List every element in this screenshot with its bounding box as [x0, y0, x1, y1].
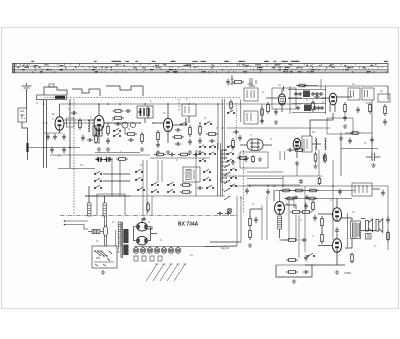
resistor R56 — [318, 177, 321, 185]
IF cluster right wire — [325, 86, 327, 114]
dial cord bus step 2 — [72, 89, 100, 93]
band switch SC0 — [94, 185, 101, 188]
wire down x158 — [157, 160, 159, 182]
rect to socket wire — [146, 226, 153, 229]
switch bank wire 2 — [103, 180, 130, 182]
bus switch SB3 — [227, 110, 234, 113]
ground V6 — [313, 164, 317, 168]
V4 grid — [266, 97, 279, 99]
resistor R39 — [351, 253, 354, 264]
capacitor C65 — [125, 109, 131, 113]
ground R12 — [198, 150, 202, 154]
capacitor C46 — [193, 153, 199, 157]
psu to sockets a — [205, 245, 237, 248]
ground selector — [101, 270, 105, 274]
pilot lamp — [227, 208, 232, 213]
ground det box — [258, 157, 262, 161]
capacitor C14 — [175, 142, 181, 146]
capacitor C44 on chassis line — [225, 212, 231, 216]
wire y168.5 — [58, 168, 95, 170]
psu to sockets b — [210, 241, 241, 243]
resistor R38 — [321, 232, 324, 244]
loudspeaker driver plug — [366, 219, 373, 232]
resistor R43 — [252, 155, 255, 163]
capacitor C3b — [50, 147, 54, 153]
wire bar down — [27, 152, 29, 160]
V9 cathode — [336, 252, 338, 265]
grid chain — [321, 228, 323, 233]
wire T1 down — [144, 118, 146, 123]
resistor R35 — [286, 271, 298, 274]
HT bus line B — [240, 100, 242, 123]
resistor R16 — [314, 152, 317, 164]
trimmer CT2 — [130, 122, 135, 127]
chassis dashed boundary — [44, 98, 240, 216]
switch shaft dashed 2 — [236, 103, 238, 140]
V3 anode wire — [167, 104, 169, 118]
wire box to bar — [22, 122, 28, 143]
V2 anode wire — [98, 104, 100, 116]
wire down x162 — [161, 160, 163, 182]
tiny value labels texture — [36, 84, 383, 255]
wire x347.5 output — [347, 213, 349, 247]
wire right drop — [387, 86, 389, 100]
V8 anode — [336, 199, 338, 208]
capacitor C9 — [81, 135, 85, 141]
coil L8 top lead — [104, 196, 106, 203]
wire x262 — [261, 205, 263, 240]
capacitor C32 filter — [266, 189, 270, 195]
T8 bottom lead — [345, 239, 352, 249]
wire x321 drop — [320, 79, 322, 89]
capacitor C69 — [294, 196, 298, 200]
resistor R40 — [387, 230, 390, 242]
wire switch to coil — [88, 186, 90, 196]
resistor R7 — [141, 132, 144, 144]
tuning gang wire B — [46, 100, 48, 169]
lower rail — [276, 264, 315, 266]
capacitor C20 — [323, 154, 327, 160]
switch SD3 — [167, 182, 174, 185]
bus drop — [99, 89, 101, 96]
capacitor C37 — [304, 255, 308, 261]
capacitor C16 — [198, 138, 202, 144]
capacitor C61 — [313, 106, 317, 110]
switch bus x220.5 — [220, 143, 222, 196]
resistor R49 — [147, 202, 150, 213]
wire x294 — [293, 196, 295, 208]
band switch SC2 — [94, 178, 101, 181]
ground V6 cathode — [295, 161, 299, 165]
right rail — [371, 100, 373, 160]
resistor R48 — [230, 100, 233, 111]
bandswitch SF7 — [227, 152, 233, 155]
wire down x143 — [142, 160, 144, 215]
ground R11 — [188, 150, 192, 154]
resistor R42 — [178, 153, 190, 156]
tube V4 IF amplifier — [278, 94, 285, 105]
resistor R34 — [286, 259, 298, 262]
dial lamp strip box — [37, 95, 67, 100]
IF trafo can T1 — [137, 106, 153, 118]
aerial coil L1b — [71, 118, 74, 127]
resistor R50 — [285, 197, 296, 200]
mains voltage selector — [92, 246, 117, 268]
wire down x147 — [146, 160, 148, 215]
switch SD6 — [203, 177, 210, 180]
T7 heater winding block — [123, 245, 128, 256]
resistor R3 — [107, 124, 110, 136]
capacitor C42 — [386, 217, 390, 223]
resistor R14 — [232, 138, 235, 150]
resistor R12 — [199, 124, 202, 136]
rectifier left link — [134, 227, 137, 241]
resistor R24 — [116, 158, 128, 161]
AF bus y172 — [247, 171, 283, 173]
switch SD2 — [151, 189, 158, 192]
capacitor C58 dark plates — [104, 157, 112, 162]
fb wire — [280, 239, 289, 241]
resistor R21 — [369, 102, 372, 114]
wire x237 psu — [236, 196, 238, 246]
rectifier loop B — [137, 236, 148, 245]
resistor R5 — [95, 134, 98, 144]
wire x333 low — [332, 160, 334, 240]
ground T5 — [343, 124, 347, 128]
driver out — [285, 205, 296, 209]
resistor R4 — [112, 117, 124, 120]
capacitor C36 — [301, 238, 307, 242]
trimmer on bus — [49, 84, 54, 87]
capacitor C39 — [381, 190, 385, 196]
resistor R32 — [300, 211, 312, 214]
switch SD4 — [167, 189, 174, 192]
wire x241 psu — [240, 196, 242, 242]
wave switch SA2 — [113, 133, 120, 136]
V4 shield box — [272, 88, 296, 109]
wire y133 — [44, 132, 62, 134]
resistor R33 — [286, 239, 298, 242]
capacitor C59 — [142, 217, 146, 221]
capacitor C26 — [370, 137, 374, 143]
capacitor C21 — [274, 109, 278, 115]
wire T2 down — [188, 116, 190, 123]
capacitor C23 — [314, 95, 320, 99]
switch SD5 — [203, 169, 210, 172]
wire down x112 — [111, 160, 113, 196]
capacitor C60 — [296, 106, 300, 110]
band switch SC5 — [137, 187, 144, 190]
resistor R26 — [180, 191, 192, 194]
tube V9 output pentode — [332, 239, 341, 253]
capacitor C29 — [95, 157, 101, 161]
terminal strip left of PSU — [221, 149, 227, 182]
V8 grid — [318, 213, 332, 215]
B+ rail 2 — [274, 190, 355, 192]
capacitor C66 — [348, 138, 352, 144]
resistor R22 — [384, 104, 387, 116]
resistor R44 — [293, 149, 305, 152]
output jack — [366, 234, 372, 240]
resistor R23 — [232, 81, 244, 84]
resistor R51 — [307, 197, 318, 200]
resistor R20 — [344, 102, 347, 114]
output bottom rail — [305, 264, 345, 266]
tuning gang wire A — [43, 100, 45, 169]
terminal mark — [249, 78, 255, 86]
dial scale assembly — [13, 61, 389, 73]
capacitor C28 — [226, 79, 230, 85]
wire x283 drop — [282, 176, 284, 186]
field coil leads — [372, 188, 380, 190]
IF coil block A — [303, 91, 310, 98]
svg-text:BX 734A: BX 734A — [178, 222, 199, 228]
capacitor C63 — [320, 106, 324, 110]
detector switch SB2 — [180, 122, 186, 125]
resistor R30 — [249, 228, 252, 240]
resistor R41 — [154, 153, 166, 156]
bandswitch SF8 — [227, 159, 233, 162]
resistor R28 — [293, 189, 305, 192]
wire top right row — [296, 85, 318, 87]
coil L5 — [315, 138, 317, 150]
V4 anode — [288, 97, 302, 99]
V2 grid wire — [88, 119, 94, 121]
tube V5 double diode — [247, 139, 263, 151]
ground R7 — [140, 147, 144, 151]
IF row2 top wire — [292, 103, 326, 105]
resistor R10 — [172, 136, 184, 139]
wire IF bus — [226, 103, 302, 105]
wire right low — [387, 186, 389, 250]
capacitor C64 — [260, 118, 264, 124]
wire V4 top — [283, 86, 285, 91]
capacitor C38 — [303, 270, 309, 274]
rectifier tap — [151, 233, 158, 235]
wire V2 out — [104, 122, 140, 124]
mains terminals — [64, 220, 88, 229]
resistor R17 — [267, 102, 270, 114]
capacitor C3a — [62, 134, 66, 140]
tube V8 output pentode — [332, 208, 341, 222]
bandswitch SF4 — [209, 145, 215, 148]
tube V2 mixer — [94, 116, 104, 131]
IF trafo can T2 — [182, 104, 196, 116]
HT bus line A2 — [223, 99, 225, 160]
tube socket strip — [133, 247, 205, 254]
capacitor C6 — [106, 138, 110, 144]
IF coil block B — [304, 105, 311, 112]
V5b anode wire — [337, 96, 352, 98]
AF bus y178.5 — [247, 178, 283, 180]
padder trimmer CT1 — [122, 122, 128, 134]
V6 cathode — [296, 150, 298, 158]
wire y196 — [85, 195, 225, 197]
IF trafo can T4 — [244, 111, 258, 124]
resistor R27 smoothing — [280, 189, 292, 192]
bandswitch SF11 — [230, 184, 236, 187]
aerial coil L1a — [67, 118, 70, 127]
resistor R29 — [249, 216, 252, 228]
ground output — [335, 270, 339, 274]
resistor R31 — [290, 211, 302, 214]
ground V2 cathode — [97, 147, 101, 151]
IF cluster left wire — [289, 86, 291, 114]
capacitor C27 — [383, 119, 387, 125]
wire across y196 — [85, 195, 130, 197]
wire x341 down — [340, 134, 342, 176]
mains cord — [105, 216, 107, 246]
capacitor C43 on chassis line — [217, 212, 223, 216]
T8 top lead — [341, 218, 352, 221]
ground AF box — [339, 136, 343, 140]
choke bottom — [279, 229, 281, 238]
bottom loop — [276, 265, 312, 277]
resistor R45 — [324, 153, 327, 164]
junction dots buses — [43, 103, 226, 151]
capacitor C18 — [238, 135, 242, 141]
AF bus y185 — [247, 184, 300, 186]
screen bus — [217, 104, 219, 150]
rectifier top lead — [141, 219, 143, 223]
V3 grid wire — [153, 122, 163, 124]
oscillator coil L7 — [88, 203, 92, 216]
IF trafo can T3 — [244, 88, 258, 101]
junction dots B+ rail — [249, 185, 334, 187]
ground V5 — [238, 155, 242, 159]
wire top right bus — [302, 85, 388, 87]
switch SB1 — [204, 121, 211, 124]
ground V2 — [106, 147, 110, 151]
tube V1 RF amp — [55, 117, 64, 131]
wire y198.5 — [285, 198, 352, 200]
resistor R52 — [261, 107, 264, 118]
resistor R55 — [307, 189, 319, 192]
switch SD7 — [206, 185, 213, 188]
wire y147.5 — [28, 147, 81, 149]
IF trafo can T6 — [362, 88, 374, 100]
wire x297 low — [296, 161, 298, 176]
capacitor C53 — [311, 92, 315, 96]
capacitor C19 — [233, 130, 239, 134]
wire y176 bus — [222, 175, 322, 177]
rectifier right link — [147, 227, 150, 241]
capacitor C41 — [335, 227, 339, 233]
speaker wire bottom — [361, 230, 376, 232]
wire y148.5 right — [341, 148, 378, 150]
V1 cathode wire — [59, 130, 61, 133]
V5 lead left — [240, 144, 247, 146]
coil L6 — [325, 138, 327, 150]
resistor R54 — [350, 132, 361, 135]
selector to trafo — [117, 251, 120, 253]
wire x319 low — [318, 150, 320, 176]
resistor R25 — [180, 184, 192, 187]
capacitor C11 — [138, 109, 142, 115]
capacitor C33 filter — [338, 189, 342, 195]
left chain top — [249, 209, 251, 217]
resistor R8 — [147, 106, 150, 118]
T7 primary winding — [118, 222, 121, 246]
tube V6 AF preamp — [293, 138, 301, 149]
bandswitch SF5 — [209, 152, 215, 155]
capacitor C3c — [62, 147, 66, 153]
ground V4 — [274, 120, 278, 124]
detector shield box — [240, 152, 268, 168]
wire x284 det — [284, 151, 286, 160]
signal wire V1 to V2 — [64, 122, 94, 124]
capacitor C13 — [175, 128, 181, 132]
band switch SC3 — [135, 169, 142, 172]
capacitor C35 — [313, 215, 317, 221]
resistor R46 — [297, 84, 308, 87]
capacitor C7 — [87, 138, 93, 142]
capacitor C51 — [298, 92, 302, 96]
capacitor C45 — [169, 153, 175, 157]
V2 cathode wire — [98, 131, 100, 145]
wire y158 row — [150, 157, 210, 159]
rectifier loop A — [137, 222, 148, 231]
capacitor C48 — [287, 148, 293, 152]
bandswitch SF3 — [199, 159, 205, 162]
T8 primary winding — [352, 223, 356, 237]
resistor R53 — [113, 110, 124, 113]
capacitor C24 — [343, 115, 347, 121]
wire AVC bus — [50, 154, 150, 156]
capacitor C54 — [315, 92, 319, 96]
tube V5b demodulator — [329, 93, 337, 105]
antenna filter box — [18, 108, 27, 122]
bandswitch SF2 — [199, 152, 205, 155]
capacitor C57 dark plates — [96, 157, 104, 162]
field coil box — [352, 183, 372, 196]
oscillator coil L8 — [103, 203, 107, 216]
capacitor C30 — [107, 157, 113, 161]
V5b grid wire — [321, 97, 329, 99]
resistor R36 — [312, 201, 315, 212]
capacitor C15 — [188, 139, 192, 145]
AF network box — [327, 118, 353, 134]
resistor R9 — [157, 130, 160, 142]
T7 secondary winding block — [123, 229, 128, 243]
V7 anode feed — [279, 191, 281, 202]
terminal strip right — [378, 94, 390, 102]
capacitor C55 — [319, 92, 323, 96]
bus drop 2 — [142, 86, 144, 96]
dial cord bus step 1 — [44, 87, 67, 95]
ground AF — [292, 279, 296, 283]
wire x296 — [295, 215, 297, 240]
capacitor C8 — [115, 122, 121, 126]
wire det down — [310, 113, 333, 136]
power transformer T7 core — [121, 222, 122, 258]
socket strip lower row — [134, 256, 162, 261]
resistor R1 — [79, 118, 82, 130]
output transformer T8 — [351, 221, 361, 239]
ground det — [231, 160, 235, 164]
band switch SC4 — [135, 177, 142, 180]
resistor R19 — [312, 100, 315, 112]
tone switch SE1 — [307, 253, 314, 256]
coil box L3 — [93, 126, 102, 136]
IF trafo can T5 — [348, 88, 360, 100]
coil L7 top lead — [88, 196, 90, 203]
dial drive pointer mark — [230, 75, 235, 84]
padding coil box L10 — [183, 167, 200, 182]
antenna symbol — [22, 83, 32, 90]
antenna lead-in — [26, 90, 28, 108]
ground chain — [248, 243, 252, 247]
